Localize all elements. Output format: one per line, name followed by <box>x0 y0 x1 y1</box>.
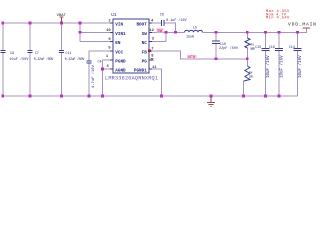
svg-text:C7: C7 <box>35 52 39 56</box>
svg-text:10uF /50V: 10uF /50V <box>9 57 29 62</box>
svg-text:4.7uF /16V: 4.7uF /16V <box>91 64 96 88</box>
svg-text:C15: C15 <box>255 46 261 50</box>
svg-text:22pF /50V: 22pF /50V <box>219 46 239 51</box>
svg-text:27K: 27K <box>249 75 253 79</box>
svg-text:10uF /16V: 10uF /16V <box>280 55 285 78</box>
svg-text:U1: U1 <box>111 13 117 18</box>
svg-text:VCC: VCC <box>115 50 123 55</box>
svg-text:PG: PG <box>142 59 148 64</box>
svg-text:PGND: PGND <box>115 59 126 64</box>
svg-text:EN: EN <box>115 41 121 46</box>
svg-text:Min 4.54V: Min 4.54V <box>266 16 290 21</box>
svg-text:12: 12 <box>149 29 154 33</box>
svg-text:FB: FB <box>142 50 148 55</box>
svg-text:PGND1: PGND1 <box>134 69 147 74</box>
svg-text:C14: C14 <box>289 46 295 50</box>
svg-text:15uH: 15uH <box>186 36 194 40</box>
svg-text:SW: SW <box>142 32 148 37</box>
svg-text:C8: C8 <box>10 52 14 56</box>
svg-text:VIN1: VIN1 <box>115 32 126 37</box>
svg-text:C6: C6 <box>160 14 164 18</box>
svg-text:C16: C16 <box>269 46 275 50</box>
svg-text:SW: SW <box>157 30 163 34</box>
svg-text:BOOT: BOOT <box>136 23 147 28</box>
svg-text:C11: C11 <box>65 52 71 56</box>
svg-text:L5: L5 <box>193 27 197 31</box>
svg-text:0.22uF /50V: 0.22uF /50V <box>34 57 54 62</box>
svg-text:VFB: VFB <box>188 57 196 61</box>
svg-text:0.1uF /16V: 0.1uF /16V <box>166 18 187 23</box>
svg-text:VDD_MAIN: VDD_MAIN <box>288 21 316 27</box>
svg-text:11: 11 <box>152 66 157 70</box>
svg-text:AGND: AGND <box>115 69 126 74</box>
svg-text:0.22uF /50V: 0.22uF /50V <box>65 57 85 62</box>
svg-text:VIN: VIN <box>115 23 123 28</box>
svg-text:10uF /16V: 10uF /16V <box>266 55 271 78</box>
svg-text:VBAT: VBAT <box>57 14 67 18</box>
svg-text:NC: NC <box>142 41 148 46</box>
svg-text:C4: C4 <box>98 60 102 64</box>
svg-text:10uF /16V: 10uF /16V <box>298 55 303 78</box>
svg-text:LMR33620AQRNXRQ1: LMR33620AQRNXRQ1 <box>105 75 158 81</box>
svg-text:10: 10 <box>106 29 111 33</box>
